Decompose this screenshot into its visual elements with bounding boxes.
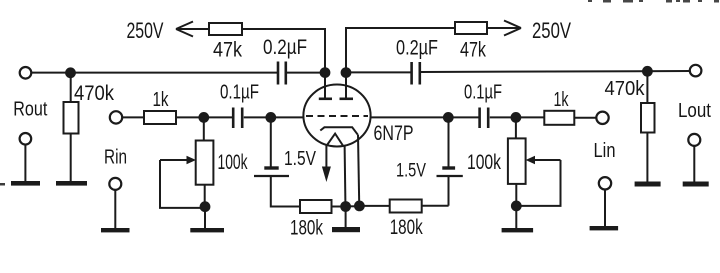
resistor 47k (right) [455,22,487,62]
arrow to 250V supply (left) [176,22,209,37]
cathode [320,127,358,134]
heater lead right down to cathode junction [344,145,347,203]
potentiometer 100k (left) [196,141,248,185]
heater filament [327,134,343,146]
ground 470k right [635,182,661,187]
wire battery right lead down [448,176,450,206]
svg-text:Lin: Lin [594,140,616,162]
junction dot pot right bottom [512,202,521,211]
terminal Lout [688,134,700,182]
pot bottom lead left [204,185,206,203]
junction dot cathode left [341,202,350,211]
junction dot cathode right [355,202,364,211]
terminal Lin [599,177,611,226]
terminal input right channel [574,112,608,124]
junction dot 470k left tap [66,68,75,77]
terminal circle top-left [20,67,32,79]
pot bottom lead right [515,184,517,203]
svg-text:470k: 470k [605,78,646,100]
capacitor 0.2uF (left) [278,62,286,85]
wire grid right to capacitor 0.1uF right [371,116,479,118]
svg-text:180k: 180k [290,217,323,240]
anode lead right [345,76,347,98]
svg-text:6N7P: 6N7P [374,122,414,145]
wiper arrow left pot [160,156,196,164]
grid dashed line [306,115,368,117]
svg-text:0.2µF: 0.2µF [396,37,438,60]
capacitor 0.1uF (left) [233,108,242,129]
capacitor 0.2uF (right) [412,62,420,85]
edge noise mark (left margin) [0,183,5,186]
wire junction to 100k pot top (left) [203,122,205,141]
wire between cathode dots [346,205,360,207]
wire top-left terminal to capacitor 0.2uF left [32,72,278,74]
junction dot battery right tap [444,113,453,122]
wire right anode junction to 47k right [346,28,455,69]
ground pot right [502,210,533,232]
svg-text:0.1µF: 0.1µF [464,81,502,104]
partial caption text (cropped at top edge) [588,0,719,3]
svg-text:470k: 470k [74,82,114,105]
wire 1k left to capacitor 0.1uF left [176,116,232,118]
wiper return wire left [160,160,201,208]
ground Lout [683,182,709,187]
battery 1.5V (left) [254,122,317,177]
ground cathode [332,210,360,232]
cathode lead down [358,135,359,203]
tube 6N7P envelope [303,85,370,147]
terminal Rin [109,178,121,228]
anode plate right [340,98,354,101]
wire C1 to left anode dot [287,72,323,74]
junction dot battery left tap [266,113,275,122]
junction dot 470k right tap [643,67,652,76]
capacitor 0.1uF (right) [480,108,489,129]
terminal input left channel [110,111,144,123]
wire cathode dot to 180k right [360,205,390,207]
heater lead left with arrow to filament supply [322,145,331,182]
wire right anode dot to capacitor 0.2uF right [350,71,411,73]
wire battery left to 180k left [271,176,300,207]
resistor 1k (left) [144,111,176,124]
junction dot right anode [342,68,351,77]
resistor 470k (left) [64,77,79,181]
potentiometer 100k (right) [467,138,526,184]
junction dot 100k right top [512,113,521,122]
wire junction to 100k pot top (right) [515,122,517,139]
svg-text:0.2µF: 0.2µF [263,36,307,59]
svg-text:Rin: Rin [104,147,127,169]
terminal Rout [20,133,32,181]
anode plate left [319,98,332,101]
junction dot pot left bottom [201,202,210,211]
wire 47k to left anode junction [242,29,325,69]
svg-text:47k: 47k [213,39,242,62]
wire 180k right to battery right [422,205,449,207]
svg-text:100k: 100k [467,151,501,174]
junction dot left anode [321,68,330,77]
junction dot 100k left top [199,113,208,122]
ground 470k left [56,181,87,186]
svg-text:1k: 1k [554,89,570,111]
resistor 1k (right) [544,111,574,125]
svg-text:250V: 250V [127,18,164,43]
svg-text:Lout: Lout [678,100,711,122]
ground Rout [11,181,40,186]
svg-text:1k: 1k [153,89,170,111]
svg-text:250V: 250V [532,18,571,43]
resistor 470k (right) [641,76,655,182]
anode lead left [324,76,326,98]
svg-text:47k: 47k [460,39,486,62]
svg-text:1.5V: 1.5V [284,148,317,170]
wire C4 to 1k right [490,116,545,118]
ground pot left [190,211,224,232]
battery 1.5V (right) [396,122,463,182]
ground Lin [590,226,619,230]
svg-text:Rout: Rout [13,99,47,121]
wire C2 to top-right terminal [421,71,690,72]
wiper return wire right [521,160,561,206]
terminal circle top-right [690,65,702,77]
arrow to 250V supply (right) [487,21,521,36]
resistor 180k (right) [390,200,423,240]
wire 180k left to cathode dots [332,206,346,208]
resistor 47k (left) [209,23,242,62]
svg-text:0.1µF: 0.1µF [220,81,259,104]
svg-text:100k: 100k [218,151,248,174]
resistor 180k (left) [290,200,332,240]
svg-text:180k: 180k [390,216,423,239]
wire C3 to grid left [244,116,304,118]
svg-text:1.5V: 1.5V [396,161,426,182]
wiper arrow right pot [526,156,561,164]
ground Rin [101,228,130,232]
